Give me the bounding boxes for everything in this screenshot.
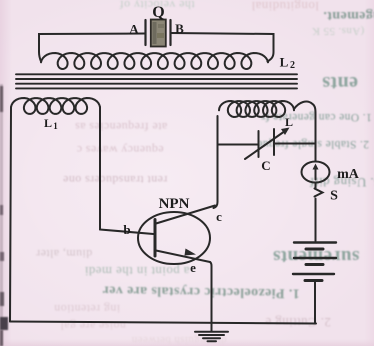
coil L2 (primary of transformer, top): [41, 53, 268, 69]
battery cell 2 positive plate: [294, 257, 336, 259]
svg-text:S: S: [330, 189, 338, 204]
coil L1 (left tank inductor): [11, 98, 100, 114]
svg-text:mA: mA: [337, 167, 360, 182]
wire: right side of L1 tank down to base corner: [99, 107, 101, 230]
wire: right tank right side from coil to meter: [294, 102, 316, 162]
svg-text:Q: Q: [152, 4, 164, 21]
wire: switch to battery: [315, 183, 317, 242]
battery cell 1 negative plate: [306, 248, 323, 251]
svg-text:1: 1: [53, 121, 58, 131]
battery cell 3 negative plate: [305, 279, 322, 282]
wire: left side of L1 tank down to bottom rail: [10, 107, 11, 322]
svg-text:L: L: [280, 55, 289, 70]
svg-text:NPN: NPN: [159, 196, 190, 212]
wire: battery to bottom rail: [314, 281, 316, 324]
svg-text:C: C: [261, 158, 270, 173]
wire: crystal plate B to right corner down to L2 right end: [171, 33, 274, 62]
transistor emitter lead with arrow: [156, 251, 210, 263]
battery cell 2 negative plate: [306, 263, 323, 266]
variable capacitor arrow: [245, 131, 285, 159]
svg-text:2: 2: [290, 60, 295, 71]
transistor base bar: [154, 220, 157, 257]
crystal Q body (shaded slab): [151, 20, 166, 47]
wire: capacitor branch left segment: [218, 144, 259, 146]
wire: emitter down to ground rail: [210, 262, 212, 331]
transformer core (4 lamination lines): [16, 73, 297, 75]
crystal Q left plate (A): [144, 20, 146, 45]
battery cell 1 positive plate: [294, 241, 336, 243]
svg-text:L: L: [44, 116, 52, 130]
svg-text:b: b: [123, 222, 130, 237]
variable capacitor C left plate: [258, 131, 260, 157]
transistor Q1 body circle: [138, 212, 210, 264]
scan edge artifacts (left margin): [0, 84, 3, 346]
wire: top-left corner from L2 up to crystal wire: [39, 34, 145, 62]
ghost showthrough text lines (back of page): [87, 0, 227, 12]
svg-text:L: L: [285, 115, 293, 129]
bottom rail wire: [10, 322, 316, 324]
svg-text:A: A: [129, 22, 139, 37]
variable capacitor C right plate: [273, 129, 275, 155]
wire: right tank left side down to collector: [214, 116, 218, 208]
crystal Q right plate (B): [169, 20, 171, 45]
wire: base lead to transistor: [100, 230, 154, 235]
svg-text:c: c: [216, 209, 222, 224]
svg-text:e: e: [190, 260, 196, 275]
milliammeter mA (circle with up arrow): [302, 162, 330, 183]
svg-text:B: B: [175, 21, 184, 36]
switch S chevron: [315, 189, 323, 197]
ground symbol: [195, 331, 228, 333]
transistor collector lead: [156, 206, 215, 224]
coil L (right tank inductor): [219, 101, 294, 117]
battery cell 3 positive plate: [293, 273, 334, 275]
wire: capacitor branch right segment: [275, 143, 316, 145]
